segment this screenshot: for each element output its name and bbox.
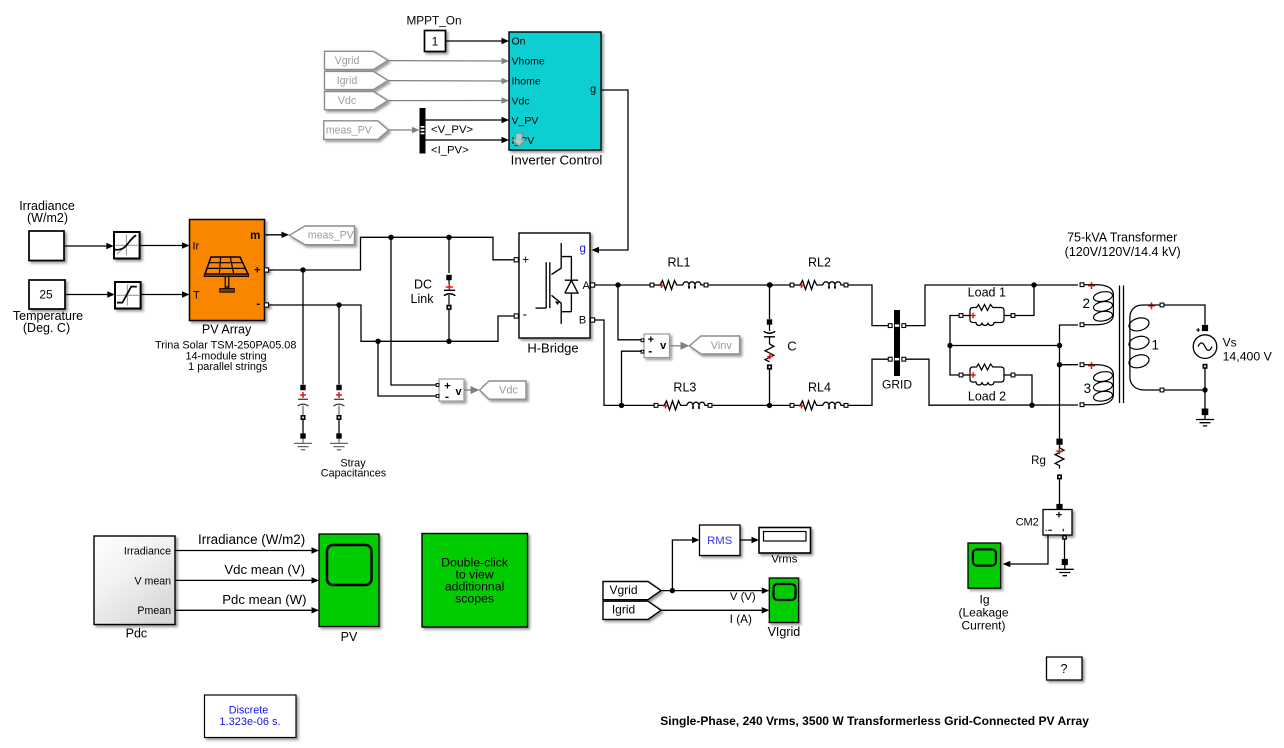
wire PV - to H-Bridge - (bottom DC rail) xyxy=(269,305,514,341)
svg-text:T: T xyxy=(193,289,200,301)
sample time block Discrete xyxy=(205,695,297,738)
wire Vgrid to Vhome xyxy=(388,60,504,62)
scope PV xyxy=(319,534,379,627)
svg-text:Vinv: Vinv xyxy=(711,340,733,352)
voltage measurement block (Vdc) xyxy=(439,379,464,403)
PV Array block xyxy=(190,220,269,321)
svg-text:Vgrid: Vgrid xyxy=(609,583,637,597)
wire meas_PV to bus selector xyxy=(389,129,415,131)
wire GRID bottom to winding 3 bottom xyxy=(906,359,1078,405)
svg-text:(120V/120V/14.4 kV): (120V/120V/14.4 kV) xyxy=(1065,245,1181,259)
wire Vgrid to VIgrid scope xyxy=(661,590,764,592)
wire Vs to winding 1 bottom xyxy=(1164,369,1205,391)
svg-text:25: 25 xyxy=(39,287,53,301)
IGBT icon xyxy=(536,243,572,324)
svg-text:scopes: scopes xyxy=(455,592,494,606)
wire neutral xyxy=(950,345,1060,347)
wire neutral to winding 3 top xyxy=(1060,364,1079,366)
junction xyxy=(336,302,341,307)
svg-text:(W/m2): (W/m2) xyxy=(27,211,68,225)
wire DC- to Vdc measurement xyxy=(378,341,437,396)
PV + port xyxy=(264,268,268,272)
wire MPPT_On to On xyxy=(446,40,504,42)
transformer winding 2 xyxy=(1080,282,1113,326)
svg-text:Vdc: Vdc xyxy=(512,95,530,107)
wire PV + to H-Bridge + (top DC rail) xyxy=(269,237,514,270)
annotation Double-click to view additionnal scopes xyxy=(422,534,528,628)
wire Igrid to Ihome xyxy=(388,80,504,82)
wire RL3 to RL4 xyxy=(712,404,790,406)
block RMS xyxy=(700,525,741,556)
svg-text:Link: Link xyxy=(411,292,435,306)
svg-text:Igrid: Igrid xyxy=(337,75,358,87)
from tag Igrid xyxy=(325,71,389,89)
junction xyxy=(947,343,952,348)
wire A junction to Vinv + xyxy=(618,285,642,340)
wire Rg to CM2 xyxy=(1059,480,1061,505)
junction xyxy=(767,282,772,287)
svg-text:Load 2: Load 2 xyxy=(968,390,1006,404)
stray capacitor branch 1 xyxy=(298,270,309,443)
wire DC+ to Vdc measurement xyxy=(391,237,437,385)
load branch Load 2 xyxy=(959,364,1015,385)
goto tag Vinv xyxy=(690,336,740,354)
transformer winding 3 xyxy=(1080,362,1113,406)
subsystem Inverter Control xyxy=(509,32,601,150)
junction xyxy=(1057,362,1062,367)
series RL branch RL3 xyxy=(654,401,712,410)
svg-text:I (A): I (A) xyxy=(730,612,752,626)
svg-text:Vdc: Vdc xyxy=(338,95,357,107)
wire Vinv - to bottom rail xyxy=(622,351,643,405)
transformer winding 1 xyxy=(1128,302,1164,392)
ground (CM2) xyxy=(1062,559,1068,565)
wire Vs ground xyxy=(1204,390,1206,409)
wire Vgrid to RMS xyxy=(672,540,694,591)
wire GRID to winding 2 top xyxy=(906,285,1078,326)
display Vrms xyxy=(759,528,811,554)
wire neutral to Rg xyxy=(1059,365,1061,439)
junction xyxy=(375,339,380,344)
junction xyxy=(446,235,451,240)
wire saturation to PV T xyxy=(141,294,184,296)
wire m to meas_PV tag xyxy=(265,234,284,236)
svg-text:Vdc mean (V): Vdc mean (V) xyxy=(224,562,305,577)
wire H-Bridge B to RL3 rail xyxy=(595,320,654,405)
scope Ig xyxy=(968,543,1001,588)
from tag meas_PV xyxy=(324,121,389,140)
wire Vinv to tag xyxy=(670,345,681,347)
junction xyxy=(446,339,451,344)
wire to Load 2 right xyxy=(1015,375,1032,405)
svg-text:B: B xyxy=(579,314,586,326)
wire neutral to winding 2 bottom xyxy=(1060,325,1079,346)
ground (stray capacitance 2) xyxy=(330,443,348,449)
wire to Load 1 right xyxy=(1015,285,1034,316)
transformer core xyxy=(1120,286,1124,404)
svg-text:v: v xyxy=(455,386,462,398)
constant block Irradiance xyxy=(29,231,64,261)
capacitor branch C xyxy=(764,285,776,405)
svg-text:<I_PV>: <I_PV> xyxy=(431,145,469,157)
svg-text:Irradiance: Irradiance xyxy=(124,545,171,557)
svg-text:V mean: V mean xyxy=(134,575,171,587)
load branch Load 1 xyxy=(959,305,1015,326)
svg-text:RL3: RL3 xyxy=(673,381,696,395)
wire H-Bridge A to RL1 xyxy=(595,284,650,286)
svg-text:1 parallel strings: 1 parallel strings xyxy=(188,361,268,373)
wire CM2 signal to Ig scope xyxy=(1009,535,1049,564)
svg-text:RL2: RL2 xyxy=(808,256,831,270)
wire 25 to saturation xyxy=(65,294,109,296)
svg-text:g: g xyxy=(579,243,585,255)
junction xyxy=(670,588,675,593)
junction xyxy=(767,282,772,287)
goto tag meas_PV xyxy=(289,226,354,245)
wire Pdc Irradiance to PV scope xyxy=(175,550,314,552)
wire lookup to PV Ir xyxy=(140,245,184,247)
current measurement CM2 xyxy=(1056,504,1062,510)
svg-text:C: C xyxy=(787,339,796,354)
wire RL1 to RL2 xyxy=(708,284,790,286)
from tag Vdc xyxy=(325,92,389,110)
H-Bridge ports xyxy=(514,258,518,262)
svg-text:g: g xyxy=(590,83,596,95)
svg-text:Ihome: Ihome xyxy=(512,76,541,88)
svg-text:1.323e-06 s.: 1.323e-06 s. xyxy=(219,716,280,728)
svg-text:DC: DC xyxy=(414,278,432,292)
junction xyxy=(619,403,624,408)
svg-text:Vs: Vs xyxy=(1223,336,1237,350)
from tag Vgrid (bottom) xyxy=(603,582,661,600)
svg-text:75-kVA Transformer: 75-kVA Transformer xyxy=(1067,231,1177,245)
svg-text:H-Bridge: H-Bridge xyxy=(527,340,578,355)
svg-text:1: 1 xyxy=(1152,338,1160,353)
wire neutral down xyxy=(1059,346,1061,365)
wire bus to I_PV xyxy=(426,139,504,141)
svg-text:-: - xyxy=(648,344,652,358)
svg-text:Discrete: Discrete xyxy=(229,705,269,717)
svg-text:Single-Phase, 240 Vrms, 3500 W: Single-Phase, 240 Vrms, 3500 W Transform… xyxy=(660,714,1089,728)
wire winding 1 top to Vs xyxy=(1164,305,1205,325)
svg-text:+: + xyxy=(522,253,529,267)
constant block 25 xyxy=(29,280,65,309)
from tag Vgrid xyxy=(325,51,389,69)
svg-text:(Leakage: (Leakage xyxy=(958,606,1008,620)
svg-text:Inverter Control: Inverter Control xyxy=(511,152,603,167)
wire Vdc measurement to tag xyxy=(464,389,471,391)
svg-text:?: ? xyxy=(1061,662,1068,676)
wire RL4 to GRID bottom xyxy=(848,359,888,405)
svg-text:m: m xyxy=(250,230,260,242)
svg-text:<V_PV>: <V_PV> xyxy=(431,124,473,136)
help block ? xyxy=(1047,657,1083,680)
series RL branch RL4 xyxy=(790,401,848,410)
PV - port xyxy=(264,303,268,307)
wire bus to V_PV xyxy=(426,119,504,121)
stray capacitor branch 2 xyxy=(334,305,345,443)
diode xyxy=(565,280,578,312)
capacitor DC Link xyxy=(444,237,456,341)
svg-text:V (V): V (V) xyxy=(730,591,756,603)
junction xyxy=(388,235,393,240)
goto tag Vdc xyxy=(480,381,527,399)
svg-text:+: + xyxy=(254,264,260,276)
svg-text:Trina Solar TSM-250PA05.08: Trina Solar TSM-250PA05.08 xyxy=(155,339,296,351)
series RL branch RL2 xyxy=(790,281,848,290)
wire RMS to Vrms xyxy=(740,539,754,541)
wire Irradiance to lookup xyxy=(64,245,108,247)
svg-text:MPPT_On: MPPT_On xyxy=(406,14,461,28)
junction xyxy=(615,282,620,287)
svg-text:Vgrid: Vgrid xyxy=(335,55,360,67)
svg-text:Capacitances: Capacitances xyxy=(321,468,387,480)
svg-text:14,400 V: 14,400 V xyxy=(1223,350,1273,364)
svg-text:Ig: Ig xyxy=(979,592,989,606)
svg-text:Vrms: Vrms xyxy=(771,553,797,565)
junction xyxy=(1031,282,1036,287)
down-arrow badge at I_PV port xyxy=(512,133,526,146)
resistor Rg xyxy=(1055,439,1064,480)
junction xyxy=(767,403,772,408)
ground (Vs) xyxy=(1202,409,1209,416)
ground (stray capacitance 1) xyxy=(294,443,312,449)
svg-text:Current): Current) xyxy=(961,619,1005,633)
svg-text:3: 3 xyxy=(1084,381,1092,396)
svg-text:(Deg. C): (Deg. C) xyxy=(23,321,70,335)
wire Load 2 left to neutral xyxy=(950,346,959,376)
svg-text:v: v xyxy=(660,340,667,352)
junction xyxy=(1057,343,1062,348)
constant block 1 (MPPT_On) xyxy=(425,31,446,52)
svg-text:Ir: Ir xyxy=(193,240,200,252)
svg-text:Pmean: Pmean xyxy=(137,605,171,617)
junction xyxy=(300,267,305,272)
lookup table block (irradiance curve) xyxy=(114,232,140,259)
solar panel icon xyxy=(205,257,248,274)
svg-text:-: - xyxy=(523,307,527,322)
svg-text:-: - xyxy=(445,389,449,403)
wire CM2 - to ground xyxy=(1062,535,1067,540)
svg-text:Irradiance (W/m2): Irradiance (W/m2) xyxy=(198,532,305,547)
svg-text:PV Array: PV Array xyxy=(202,323,252,337)
svg-text:RL1: RL1 xyxy=(668,256,691,270)
svg-text:RMS: RMS xyxy=(707,535,733,547)
svg-text:RL4: RL4 xyxy=(808,381,831,395)
svg-text:Load 1: Load 1 xyxy=(968,285,1006,299)
svg-text:Pdc mean (W): Pdc mean (W) xyxy=(222,592,306,607)
svg-text:Vdc: Vdc xyxy=(499,384,518,396)
svg-text:CM2: CM2 xyxy=(1016,517,1039,529)
junction xyxy=(1202,387,1207,392)
svg-text:meas_PV: meas_PV xyxy=(308,230,355,242)
svg-text:+: + xyxy=(1056,510,1062,522)
wire Vdc to Vdc port xyxy=(388,100,504,102)
svg-text:-: - xyxy=(256,297,260,311)
H-Bridge block xyxy=(519,233,591,338)
from tag Igrid (bottom) xyxy=(603,601,661,619)
svg-text:VIgrid: VIgrid xyxy=(768,625,801,639)
svg-text:Pdc: Pdc xyxy=(126,627,148,641)
junction xyxy=(1029,403,1034,408)
svg-text:meas_PV: meas_PV xyxy=(326,125,373,137)
saturation block xyxy=(115,282,141,309)
svg-text:GRID: GRID xyxy=(882,378,912,392)
svg-text:On: On xyxy=(512,35,526,47)
svg-text:Rg: Rg xyxy=(1031,455,1046,467)
wire Pdc Pmean to PV scope xyxy=(175,609,314,611)
svg-text:A: A xyxy=(583,280,591,292)
svg-text:Vhome: Vhome xyxy=(512,55,545,67)
wire Inverter Control g to H-Bridge g xyxy=(597,90,629,250)
bus selector xyxy=(420,108,426,154)
wire Pdc V mean to PV scope xyxy=(175,579,314,581)
svg-text:Igrid: Igrid xyxy=(612,603,635,617)
voltage measurement block (Vinv) xyxy=(644,334,670,358)
svg-text:V_PV: V_PV xyxy=(512,115,539,127)
wire Igrid to VIgrid scope xyxy=(661,609,764,611)
series RL branch RL1 xyxy=(650,281,708,290)
svg-text:1: 1 xyxy=(432,34,439,48)
scope VIgrid xyxy=(769,578,798,623)
wire RL2 to GRID top xyxy=(848,285,888,326)
bus bar GRID xyxy=(894,310,900,376)
wire Load 1 left to neutral xyxy=(950,316,959,346)
svg-text:2: 2 xyxy=(1082,296,1090,311)
svg-text:PV: PV xyxy=(341,630,358,644)
voltage source Vs xyxy=(1193,325,1217,369)
